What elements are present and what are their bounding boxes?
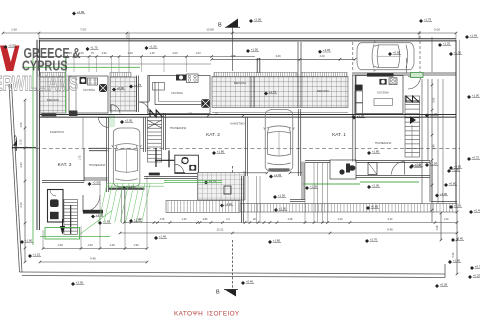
extension vertical x129 — [128, 33, 130, 72]
stair rail KAT.3 — [70, 205, 72, 234]
svg-text:9.45: 9.45 — [387, 228, 393, 232]
svg-text:1.0: 1.0 — [226, 218, 230, 221]
svg-text:+0.90: +0.90 — [117, 86, 125, 90]
level marker +1.60 ramp — [129, 218, 142, 224]
svg-text:+1.75: +1.75 — [269, 90, 277, 94]
wall verticals right block — [421, 79, 423, 204]
svg-text:1.28: 1.28 — [57, 243, 63, 247]
svg-text:4.20: 4.20 — [319, 54, 325, 58]
site boundary bottom right end — [444, 264, 446, 278]
dimension line y248 left — [43, 248, 147, 250]
svg-text:+1.30: +1.30 — [440, 192, 448, 196]
svg-text:+1.15: +1.15 — [33, 253, 41, 257]
door leaf kitchen KAT.2 — [139, 101, 149, 103]
svg-text:ΒΕΡΑΝΤΑ: ΒΕΡΑΝΤΑ — [317, 89, 329, 93]
svg-text:ΤΡΑΠΕΖΑΡΙΑ: ΤΡΑΠΕΖΑΡΙΑ — [170, 126, 187, 130]
backyard dark rect — [224, 186, 231, 194]
wall right of stairs — [165, 113, 167, 150]
svg-text:ΒΕΡΑΝΤΑ: ΒΕΡΑΝΤΑ — [47, 98, 59, 102]
veranda divider wall 1 — [253, 77, 255, 108]
watermark red V logo — [0, 46, 20, 72]
wall y201.5 right — [431, 201, 457, 203]
level marker +1.15 — [28, 253, 41, 259]
wall below parking — [352, 72, 456, 74]
car 1 garage — [112, 128, 142, 187]
bathroom KAT.1 shower — [368, 163, 377, 175]
svg-text:.40: .40 — [138, 218, 142, 221]
level marker +1.40 right — [425, 112, 438, 118]
kitchen KAT.2 upper cabinet — [153, 83, 165, 91]
level marker +0.80 b — [449, 165, 462, 171]
svg-text:6.40: 6.40 — [388, 218, 393, 221]
level marker +1.50 right — [449, 51, 462, 57]
level marker +1.50 r2 — [425, 162, 438, 168]
level marker +0.75 — [204, 179, 217, 185]
level marker +0.85 — [366, 205, 379, 211]
stair dark base — [149, 173, 160, 176]
vertical dim line right x432 — [431, 79, 433, 222]
svg-text:2.80: 2.80 — [203, 218, 208, 221]
level marker +1.80 KAT.1 — [367, 150, 380, 156]
svg-text:2.00: 2.00 — [172, 51, 178, 55]
site boundary bottom double line — [20, 272, 446, 274]
level marker +0.90 r — [444, 182, 457, 188]
level marker +1.80 bottom — [268, 239, 281, 245]
section marker B top — [218, 19, 240, 29]
svg-text:+1.75: +1.75 — [134, 83, 142, 87]
svg-text:+2.90: +2.90 — [77, 10, 85, 14]
svg-text:+2.00: +2.00 — [76, 281, 84, 285]
level marker +1.00 right col — [467, 94, 480, 100]
svg-text:ΒΕΡΑΝΤΑ: ΒΕΡΑΝΤΑ — [234, 81, 246, 85]
green line right 2 — [360, 181, 419, 183]
level marker +1.75 — [86, 46, 99, 52]
extension lines mid x241-260 — [241, 176, 243, 223]
veranda tiles KAT.3 — [40, 77, 66, 113]
parking dashed boundary left — [352, 42, 354, 72]
level marker +2.05 — [120, 119, 133, 125]
hatch walkway mid — [166, 201, 240, 213]
extension lines top dim — [38, 33, 40, 39]
svg-text:B: B — [216, 290, 220, 296]
level marker +1.60 left — [20, 239, 33, 245]
svg-text:3.18: 3.18 — [160, 218, 165, 221]
wc KAT.2 walls — [175, 155, 199, 173]
wall right exterior — [455, 40, 457, 204]
svg-text:+1.50: +1.50 — [278, 194, 286, 198]
level marker +0.90 right col b — [447, 168, 460, 174]
dark wall post x69 — [69, 111, 77, 117]
level marker +0.45 far — [469, 209, 480, 215]
downpipe column — [259, 58, 261, 73]
svg-text:ΚΑΤ. 1: ΚΑΤ. 1 — [332, 132, 346, 138]
svg-text:1.28: 1.28 — [109, 243, 115, 247]
wall garage left — [108, 117, 110, 192]
svg-text:ΤΡΑΠΕΖΑΡΙΑ: ΤΡΑΠΕΖΑΡΙΑ — [89, 163, 106, 167]
svg-text:+1.80: +1.80 — [372, 150, 380, 154]
hatch walkway long — [240, 204, 457, 213]
wall y179 corridor — [84, 177, 108, 179]
garage door band — [109, 188, 145, 190]
svg-text:+0.50: +0.50 — [393, 51, 401, 55]
door leaf entry — [99, 117, 109, 119]
vertical dim line left — [24, 100, 26, 262]
wall mid vertical KAT.2 — [247, 117, 249, 176]
green line right 1 — [303, 183, 360, 185]
svg-text:ΚΑΤ. 3: ΚΑΤ. 3 — [58, 162, 72, 168]
wall x431 — [431, 161, 433, 202]
dark sill band KAT.3 veranda — [42, 113, 57, 116]
section line A-A bold start — [12, 147, 36, 149]
door arc kitchen KAT.2 — [139, 102, 149, 112]
hatched sill band strip A — [214, 72, 297, 76]
svg-text:+2.05: +2.05 — [125, 119, 133, 123]
level marker +1.20 — [220, 202, 233, 208]
parking divider line — [406, 58, 408, 73]
svg-text:+0.70: +0.70 — [475, 265, 480, 269]
bathroom KAT.1 sink — [339, 169, 344, 174]
bathroom KAT.1 walls — [356, 160, 430, 162]
svg-text:+1.75: +1.75 — [90, 46, 98, 50]
bath block KAT.1 mid — [330, 160, 356, 179]
kitchen KAT.3 stove — [88, 78, 98, 85]
backyard tiles KAT.2 — [198, 173, 246, 201]
green ramp fan — [99, 183, 165, 223]
kitchen KAT.1 stove — [389, 78, 397, 85]
kitchen KAT.2 counter L — [155, 82, 201, 105]
stair arrow right — [410, 116, 416, 124]
svg-text:3.40: 3.40 — [432, 144, 436, 150]
svg-text:ΚΑΘΙΣΤΙΚΟ: ΚΑΘΙΣΤΙΚΟ — [230, 122, 244, 126]
vertical dim right x441 — [440, 213, 442, 240]
wall y161.5 right-mid — [305, 160, 330, 162]
dimension line y233 — [120, 232, 457, 234]
svg-text:+0.90: +0.90 — [449, 182, 457, 186]
door arc wc — [175, 164, 184, 173]
svg-text:ΚΑΤ. 2: ΚΑΤ. 2 — [206, 132, 220, 138]
wc door leaf — [175, 172, 185, 174]
level marker +1.80 wc — [212, 150, 225, 156]
svg-text:+1.50: +1.50 — [149, 45, 157, 49]
stair arrow KAT.3 — [61, 219, 65, 233]
level marker +1.75 veranda — [264, 90, 277, 96]
level marker +2.00 bottom — [71, 281, 84, 287]
svg-text:+0.20: +0.20 — [473, 274, 480, 278]
carport rear ticks — [242, 172, 245, 175]
bathroom KAT.3 walls — [48, 190, 64, 223]
svg-text:1.71: 1.71 — [188, 112, 193, 115]
kitchen KAT.1 sink — [379, 79, 386, 85]
svg-text:+1.50: +1.50 — [251, 48, 259, 52]
veranda tiles strip — [212, 77, 348, 108]
section line B-B lower dashed — [232, 240, 234, 292]
car 2 carport — [264, 110, 295, 172]
svg-text:13.88: 13.88 — [206, 28, 214, 32]
svg-text:+2.00: +2.00 — [254, 18, 262, 22]
level marker +1.25 right — [438, 42, 451, 48]
carport rear dim line — [240, 172, 267, 174]
extension lines dim y56 — [66, 57, 68, 73]
door leaf bath KAT.1 — [404, 162, 406, 175]
bathroom KAT.3 toilet — [50, 199, 59, 207]
svg-text:1.40: 1.40 — [182, 218, 187, 221]
staircase KAT.3 down — [64, 199, 78, 234]
wall KAT.3 lower horizontal — [42, 179, 84, 181]
svg-text:1.20: 1.20 — [444, 218, 449, 221]
door leaf veranda — [110, 105, 112, 114]
svg-text:2.10: 2.10 — [19, 202, 23, 208]
level marker +2.00 r — [367, 184, 380, 190]
level marker +2.50 — [88, 181, 101, 187]
wall interior horizontal y115.8 — [39, 114, 456, 116]
level marker +0.20 br — [468, 274, 480, 280]
svg-text:+0.75: +0.75 — [472, 156, 480, 160]
green horizontal line top-left — [22, 66, 140, 68]
wc sink — [189, 165, 196, 171]
svg-text:+0.95: +0.95 — [454, 204, 462, 208]
door arc KAT.1 hall — [408, 77, 421, 90]
dimension line y222.5 — [124, 222, 457, 224]
level marker +1.45 car2 — [269, 173, 282, 179]
svg-text:+1.75: +1.75 — [424, 18, 432, 22]
wall right of car2 — [300, 109, 302, 176]
svg-text:+1.45: +1.45 — [274, 173, 282, 177]
stair mid rail right — [411, 125, 413, 157]
level marker +1.45 c — [318, 48, 331, 54]
svg-text:+1.40: +1.40 — [159, 235, 167, 239]
level marker +1.80 br — [448, 259, 461, 265]
svg-text:ΤΡΑΠΕΖΑΡΙΑ: ΤΡΑΠΕΖΑΡΙΑ — [375, 141, 392, 145]
level marker +1.50 b — [246, 48, 259, 54]
level marker +2.00 — [249, 18, 262, 24]
svg-text:5.10: 5.10 — [19, 139, 23, 145]
extension lines bottom-left — [80, 226, 82, 249]
door arc KAT.2 entry — [99, 118, 109, 128]
svg-text:ΚΑΘΙΣΤΙΚΟ: ΚΑΘΙΣΤΙΚΟ — [50, 130, 64, 134]
svg-text:+1.50: +1.50 — [454, 51, 462, 55]
svg-text:1.40: 1.40 — [127, 51, 133, 55]
level marker +1.20 kat1 — [352, 114, 365, 120]
wall right of KAT.2 veranda — [138, 76, 140, 113]
level marker +0.40 bottom right — [451, 237, 464, 243]
kitchen KAT.3 sink — [80, 77, 87, 84]
sill line below top wall — [39, 63, 211, 65]
level marker +0.75 right col — [467, 156, 480, 162]
svg-text:+2.50: +2.50 — [92, 181, 100, 185]
wall y149.5 garage front — [89, 147, 108, 149]
corridor door leaf KAT.3 — [82, 195, 84, 212]
level marker +0.95 — [449, 204, 462, 210]
kitchen KAT.1 left wall — [354, 75, 356, 162]
green lines backyard — [164, 179, 222, 181]
kitchen KAT.1 island — [374, 98, 393, 105]
level marker +1.65 — [98, 220, 111, 226]
section marker A left — [13, 134, 18, 151]
svg-text:+2.55: +2.55 — [8, 44, 16, 48]
section marker B bottom — [216, 289, 238, 296]
corridor dark wall band — [83, 210, 103, 214]
level marker +1.40 — [154, 235, 167, 241]
level marker +1.50 bath — [410, 163, 423, 169]
green line lower — [40, 236, 110, 238]
dark door triangles stairs top — [150, 110, 162, 117]
svg-text:1.60: 1.60 — [11, 28, 17, 32]
svg-text:ΚΟΥΖΙΝΑ: ΚΟΥΖΙΝΑ — [171, 91, 183, 95]
svg-text:+0.50: +0.50 — [414, 164, 422, 168]
veranda divider wall 2 — [300, 42, 302, 108]
svg-text:1.28: 1.28 — [436, 225, 439, 230]
wc toilet ring — [182, 158, 188, 164]
kitchen KAT.3 counter — [75, 77, 77, 112]
kitchen KAT.1 walls — [356, 76, 403, 114]
parking inner line — [431, 37, 433, 72]
level marker +1.50 a — [145, 45, 158, 51]
veranda tiles KAT.2 left — [110, 77, 136, 111]
svg-text:+1.80: +1.80 — [273, 239, 281, 243]
green door highlight — [108, 115, 115, 128]
kitchen KAT.3 walls — [69, 76, 108, 113]
hatched sill band KAT.3 veranda — [40, 72, 66, 76]
svg-text:12.21: 12.21 — [217, 228, 224, 232]
svg-text:+0.90: +0.90 — [452, 168, 460, 172]
car 3 top parking — [357, 41, 414, 71]
kitchen KAT.2 stove — [187, 74, 199, 83]
green utility box right — [411, 73, 424, 78]
level marker +1.45 car1 — [122, 185, 135, 191]
level marker +2.70 bottom — [365, 238, 378, 244]
wall top exterior — [39, 38, 456, 40]
level marker +1.00 corridor — [91, 213, 104, 219]
svg-text:5.00: 5.00 — [434, 28, 440, 32]
level marker +1.75 veranda KAT.2 — [129, 83, 142, 89]
green vertical line mid-left — [65, 58, 67, 113]
svg-text:+1.40: +1.40 — [430, 112, 438, 116]
wall x83 upper thin — [82, 117, 84, 149]
kitchen KAT.2 sink — [176, 75, 186, 81]
section line A-A dashed — [36, 147, 460, 149]
wall y200 mid — [290, 199, 305, 201]
svg-text:1.73: 1.73 — [79, 155, 82, 160]
wall y177.5 mid — [144, 176, 198, 178]
door arc veranda KAT.2 — [111, 105, 120, 114]
svg-text:+1.80: +1.80 — [453, 259, 461, 263]
level marker +2.90 — [72, 10, 85, 16]
svg-text:ΚΟΥΖΙΝΑ: ΚΟΥΖΙΝΑ — [377, 91, 389, 95]
svg-text:+1.45: +1.45 — [470, 34, 478, 38]
svg-text:3.30: 3.30 — [19, 162, 23, 168]
veranda sill line — [212, 112, 348, 114]
dimension line y262 left — [40, 261, 147, 263]
extension lines x305-328 — [304, 163, 306, 223]
green diagonal lower — [80, 211, 112, 235]
svg-text:ΙΣΟΓΕΙΟΥ: ΙΣΟΓΕΙΟΥ — [207, 310, 240, 317]
svg-text:+1.25: +1.25 — [443, 42, 451, 46]
dimension line y56.5 left — [35, 56, 255, 58]
kitchen KAT.1 counter band — [367, 73, 394, 76]
site boundary left double slanted line — [9, 84, 20, 272]
svg-text:.75: .75 — [90, 51, 94, 55]
svg-text:+0.85: +0.85 — [371, 205, 379, 209]
level marker +0.90 — [112, 86, 125, 92]
svg-text:1.90: 1.90 — [87, 243, 93, 247]
wall dim ticks y116 — [207, 115, 210, 118]
level marker +0.50 stair — [409, 164, 422, 170]
level marker +1.50 car2 — [273, 194, 286, 200]
svg-text:ΚΟΥΖΙΝΑ: ΚΟΥΖΙΝΑ — [83, 88, 95, 92]
svg-text:3.49: 3.49 — [275, 54, 281, 58]
svg-text:B: B — [218, 23, 222, 29]
svg-text:+2.00: +2.00 — [372, 184, 380, 188]
svg-text:.20: .20 — [252, 218, 256, 221]
green room outline — [45, 228, 80, 240]
section line B-B mid dashed — [232, 166, 234, 200]
svg-text:1.90: 1.90 — [133, 243, 139, 247]
kitchen KAT.1 pantry shelves — [355, 91, 363, 103]
kitchen KAT.3 fridge — [99, 84, 107, 92]
svg-text:+1.20: +1.20 — [357, 114, 365, 118]
staircase mid — [148, 117, 162, 162]
svg-text:1.88: 1.88 — [230, 54, 236, 58]
kitchen KAT.2 fridge — [201, 99, 210, 108]
svg-text:ERWILLIAMS: ERWILLIAMS — [0, 71, 78, 95]
svg-text:5.01: 5.01 — [432, 97, 436, 103]
svg-text:+1.80: +1.80 — [217, 150, 225, 154]
svg-text:+1.50: +1.50 — [310, 185, 318, 189]
wall x303 — [303, 162, 305, 201]
hatched sill band strip B — [301, 72, 347, 76]
garage door lines — [121, 190, 123, 223]
bathroom KAT.1 toilet — [346, 164, 350, 173]
svg-text:+1.45: +1.45 — [323, 48, 331, 52]
kitchen KAT.1 fridge — [355, 85, 363, 91]
staircase KAT.1 — [405, 96, 420, 157]
wall x84 vertical — [83, 149, 85, 182]
level marker +0.50 car3 — [388, 51, 401, 57]
dimension line top y33 — [3, 32, 456, 34]
dimension line y59.3 right — [212, 58, 355, 60]
svg-text:1.03: 1.03 — [195, 51, 201, 55]
svg-text:+2.70: +2.70 — [370, 238, 378, 242]
stair dark rail mid — [155, 148, 157, 167]
car2 rear dark band — [269, 168, 290, 171]
level marker +2.55 — [4, 44, 17, 50]
kitchen KAT.2 walls — [148, 76, 210, 114]
vertical dim right x457 — [456, 212, 458, 274]
green vertical line left — [32, 58, 34, 245]
parking dashed boundary right — [419, 31, 421, 72]
svg-text:ΚΑΤΟΨΗ: ΚΑΤΟΨΗ — [174, 310, 203, 317]
door arc bath KAT.1 — [392, 162, 405, 175]
svg-text:5.40: 5.40 — [452, 252, 455, 257]
level marker +1.80 car2 low — [274, 207, 287, 213]
bathroom KAT.3 door swing — [50, 190, 56, 196]
svg-text:7.03: 7.03 — [80, 28, 86, 32]
svg-text:4.28: 4.28 — [288, 218, 293, 221]
svg-text:1.50: 1.50 — [19, 122, 23, 128]
pavement edge line right — [459, 40, 461, 204]
svg-text:+1.50: +1.50 — [430, 162, 438, 166]
level marker +1.30 r — [435, 192, 448, 198]
right thin verticals — [437, 79, 439, 204]
svg-text:+1.00: +1.00 — [472, 94, 480, 98]
svg-text:1.20: 1.20 — [338, 218, 343, 221]
svg-text:1.40: 1.40 — [149, 51, 155, 55]
hatched sill band KAT.2 veranda — [110, 72, 131, 76]
svg-text:+0.40: +0.40 — [246, 280, 254, 284]
svg-text:+0.45: +0.45 — [474, 209, 480, 213]
section line B-B upper — [232, 27, 234, 71]
svg-text:9.45: 9.45 — [90, 257, 96, 261]
